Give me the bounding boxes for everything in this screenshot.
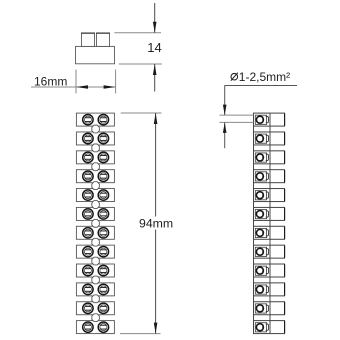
dimension 16mm: dimension line (31, 86, 116, 88)
cell 8 (254, 245, 285, 258)
dimension 16mm: left extension line (75, 70, 77, 94)
cell 12 (254, 321, 285, 334)
dimension 94mm: top extension line (121, 112, 162, 114)
segment 8 (76, 245, 114, 258)
dimension 94mm: bottom extension line (120, 333, 161, 335)
wire diameter dimension: diameter symbol (231, 73, 238, 80)
dimension 16mm: right extension line (115, 70, 117, 94)
dimension 14: lower leader with up arrow (154, 64, 156, 92)
dimension 94mm: label (139, 217, 175, 230)
wire diameter dimension: label 1-2,5mm2 (239, 70, 290, 84)
svg-text:14: 14 (147, 40, 161, 55)
cell 2 (254, 132, 285, 145)
dimension 94mm: dimension line (155, 113, 157, 334)
cell 11 (254, 302, 285, 315)
svg-text:1-2,5mm²: 1-2,5mm² (239, 70, 290, 84)
cell 10 (254, 283, 285, 296)
segment 10 (76, 283, 114, 296)
front view: left screw block (82, 33, 95, 46)
front view: right screw block (97, 33, 110, 46)
wire diameter dimension: upper extension line (219, 114, 253, 116)
front view: dark top edges of screw blocks (81, 32, 95, 34)
front view: main body (76, 46, 115, 63)
segment 12 (76, 321, 114, 334)
side view: continuous divider line (269, 113, 271, 334)
svg-text:16mm: 16mm (34, 74, 67, 88)
cell 9 (254, 264, 285, 277)
dimension 14: top extension line (114, 32, 161, 34)
segment 3 (76, 151, 114, 164)
segment 4 (76, 170, 114, 183)
cell 6 (254, 207, 285, 220)
wire diameter dimension: lower extension line (219, 121, 253, 123)
wire diameter dimension: lower leader with up arrow (224, 122, 226, 148)
wire diameter dimension: horizontal leader under label (225, 85, 297, 87)
side view: continuous left edge (253, 113, 255, 334)
dimension 16mm: right arrow (104, 85, 116, 89)
cell 3 (254, 151, 285, 164)
dimension 14: label (147, 40, 161, 55)
divider bumps between segments (92, 125, 100, 133)
segment 7 (76, 226, 114, 239)
wire diameter dimension: upper leader with down arrow (224, 85, 226, 115)
svg-text:94mm: 94mm (139, 217, 173, 231)
dimension 14: bottom extension line (119, 63, 162, 65)
segment 9 (76, 264, 114, 277)
dimension 94mm: top arrow (154, 113, 158, 124)
segment 2 (76, 132, 114, 145)
cell 4 (254, 170, 285, 183)
segment 5 (76, 189, 114, 202)
segment 6 (76, 207, 114, 220)
dimension 94mm: bottom arrow (154, 323, 158, 334)
dimension 14: upper leader with down arrow (154, 3, 156, 33)
segment 11 (76, 302, 114, 315)
dimension 16mm: left arrow (76, 85, 88, 89)
segment 1 (76, 113, 114, 126)
cell 7 (254, 226, 285, 239)
cell 5 (254, 189, 285, 202)
cell 1 (254, 113, 285, 126)
dimension 16mm: label (34, 74, 67, 88)
